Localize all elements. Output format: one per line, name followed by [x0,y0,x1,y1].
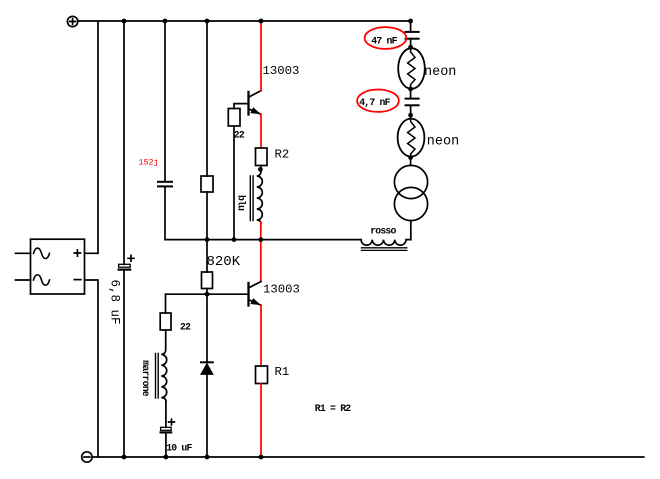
wire positive bridge output to top rail [85,21,99,253]
capacitor C 10uF electrolytic [161,419,175,432]
wire collector Q1 to top rail (red) [260,21,262,91]
svg-text:6,8 uF: 6,8 uF [108,280,122,325]
wire R3 to resistor 820K [206,192,208,272]
capacitor C 4.7nF [406,99,419,106]
wire from top rail to capacitor C 6.8uF [123,21,125,264]
wire neon 1 to capacitor 4.7nF [410,89,412,99]
lamp circle lower [394,187,427,220]
svg-text:22: 22 [180,322,191,333]
node junction middle rail x234 [232,237,237,242]
svg-text:10 uF: 10 uF [166,442,192,453]
resistor 22 upper [228,109,240,127]
resistor R2 [256,148,268,166]
wire C 152j down and middle rail to rosso winding [165,186,361,239]
wire 820K to base node [206,289,208,295]
wire emitter Q2 to R1 (red) [260,305,262,366]
wire C 10uF to bottom rail [165,433,167,457]
wire base Q1 branch: resistor 22 upper [234,104,249,109]
value callout 47 nF [365,27,407,49]
node junction bottom rail x206 [205,455,210,460]
resistor R3 unlabeled [201,176,213,192]
wire C 47nF to neon 1 [410,39,412,49]
resistor R1 [256,366,268,384]
wire from top rail to resistor box R3 [206,21,208,176]
node junction bottom rail x166 [164,455,169,460]
neon lamp 2 [398,115,425,157]
node junction top rail x410 [408,19,413,24]
wire blu winding to Q2 collector (red) [260,222,262,282]
resistor 22 lower [160,313,171,330]
inductor winding blu [250,170,262,225]
wire 22 lower to marrone winding [165,330,167,349]
terminal minus [82,452,92,462]
capacitor C 152j [158,182,172,187]
transistor Q2 13003 [249,282,262,306]
svg-text:blu: blu [235,195,246,211]
wire base rail Q2 [166,293,249,295]
svg-text:820K: 820K [207,254,241,270]
svg-text:13003: 13003 [263,64,300,78]
wire R1 to bottom rail (red) [260,384,262,458]
transistor Q1 13003 [249,91,262,115]
lamp circle upper [394,165,427,198]
resistor 820K [202,272,213,289]
value callout 4,7 nF [357,90,399,112]
wire bottom rail [92,456,644,458]
wire C 6.8uF to bottom rail [123,271,125,458]
wire AC input line 1 [16,252,31,254]
wire base node to diode D1 [206,294,208,362]
svg-text:marrone: marrone [140,360,151,396]
node junction below R2 [258,167,263,172]
wire lamp to rosso winding [410,221,412,240]
wire top rail [78,20,411,22]
wire base node down to resistor 22 lower [165,294,167,313]
wire negative bridge output to bottom rail [85,280,99,457]
wire from top rail to capacitor C 152j [164,21,166,182]
node junction above neon 1 [408,45,413,50]
svg-text:R2: R2 [275,148,290,162]
wire emitter Q1 to R2 (red) [260,115,262,149]
capacitor C 6.8uF electrolytic [119,255,134,269]
node junction top rail x124 [122,19,127,24]
wire R2 to blu winding [260,166,262,170]
svg-text:R1: R1 [275,365,290,379]
node junction top rail x165 [163,19,168,24]
node junction top rail x261 [259,19,264,24]
node junction bottom rail x261 [259,455,264,460]
node junction middle rail x261 [258,237,263,242]
wire marrone winding to capacitor 10uF [165,401,167,427]
node junction middle rail x207 [205,237,210,242]
inductor winding rosso [361,240,411,251]
diode D1 [201,362,213,374]
svg-text:rosso: rosso [370,225,396,236]
terminal plus [67,16,77,26]
svg-text:4,7 nF: 4,7 nF [359,97,390,108]
svg-text:47 nF: 47 nF [371,35,397,46]
node junction below neon 1 [408,87,413,92]
svg-text:neon: neon [427,134,459,149]
wire AC input line 2 [16,279,31,281]
svg-text:neon: neon [424,65,456,80]
bridge rectifier B1 [31,239,85,294]
node junction above neon 2 [408,113,413,118]
capacitor C 47nF [406,32,419,39]
svg-text:R1 = R2: R1 = R2 [315,403,351,414]
wire diode D1 to bottom rail [206,374,208,457]
inductor winding marrone [156,349,167,402]
node junction bottom rail x124 [122,455,127,460]
node junction below neon 2 [408,155,413,160]
wire C 4.7nF to neon 2 [410,105,412,115]
node junction top rail x207 [205,19,210,24]
wire top rail to capacitor 47nF [410,21,412,32]
neon lamp 1 [398,48,425,89]
svg-text:152j: 152j [139,158,159,168]
wire 22 upper to middle rail [233,126,235,240]
svg-text:22: 22 [234,130,245,141]
svg-text:13003: 13003 [263,282,300,296]
wire neon 2 to lamp [410,158,412,166]
node junction base Q2 x207 [205,292,210,297]
